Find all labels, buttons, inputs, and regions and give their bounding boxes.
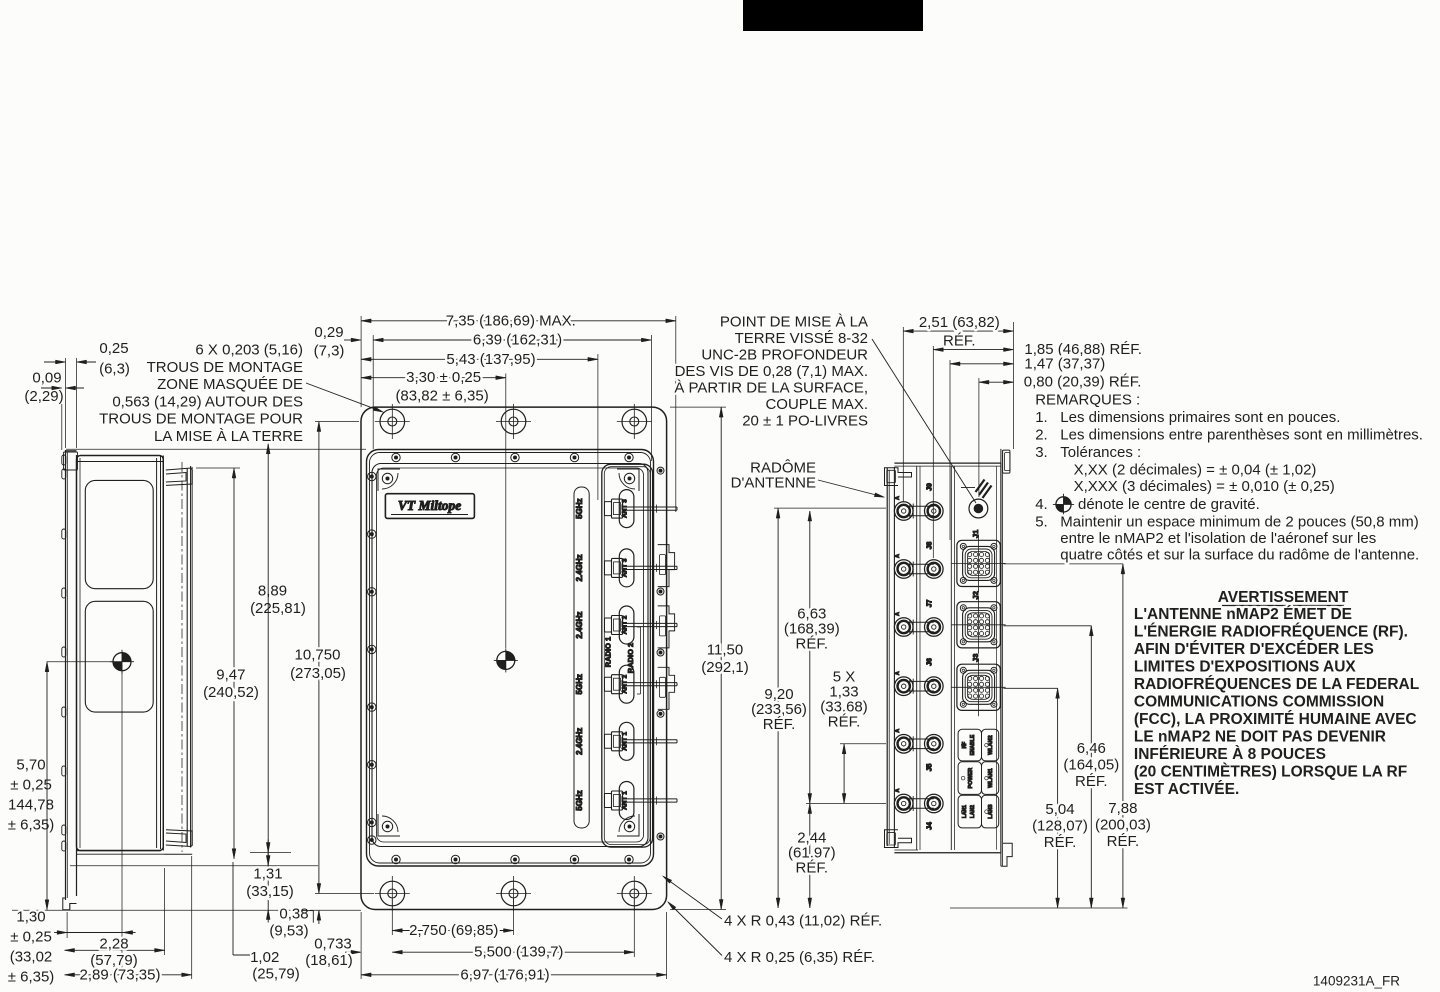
svg-text:J2: J2 <box>971 591 980 599</box>
svg-text:INFÉRIEURE À 8 POUCES: INFÉRIEURE À 8 POUCES <box>1134 746 1326 763</box>
svg-text:ANT 3: ANT 3 <box>622 558 629 577</box>
svg-text:10,750: 10,750 <box>295 647 341 664</box>
svg-text:J1: J1 <box>971 530 980 538</box>
svg-text:ANT 1: ANT 1 <box>622 791 629 810</box>
svg-text:(225,81): (225,81) <box>250 600 306 617</box>
svg-text:2.4GHz: 2.4GHz <box>575 554 584 581</box>
svg-text:0,38: 0,38 <box>279 906 308 923</box>
svg-text:± 0,25: ± 0,25 <box>10 929 52 946</box>
svg-text:X,XX (2 décimales) = ± 0,04 (±: X,XX (2 décimales) = ± 0,04 (± 1,02) <box>1074 461 1317 478</box>
svg-text:ZONE MASQUÉE DE: ZONE MASQUÉE DE <box>157 376 303 393</box>
svg-text:1409231A_FR: 1409231A_FR <box>1313 974 1400 989</box>
svg-text:J3: J3 <box>971 654 980 662</box>
svg-text:2,51 (63,82): 2,51 (63,82) <box>919 314 1000 331</box>
svg-text:A: A <box>895 612 901 616</box>
svg-text:2.4GHz: 2.4GHz <box>575 611 584 638</box>
svg-text:(25,79): (25,79) <box>252 965 300 982</box>
svg-text:(6,3): (6,3) <box>99 360 130 377</box>
svg-text:A: A <box>895 788 901 792</box>
svg-text:1,31: 1,31 <box>253 866 282 883</box>
svg-text:J9: J9 <box>927 483 934 491</box>
svg-text:(83,82 ± 6,35): (83,82 ± 6,35) <box>395 388 488 405</box>
svg-text:20 ± 1 PO-LIVRES: 20 ± 1 PO-LIVRES <box>742 413 868 430</box>
svg-text:AFIN D'ÉVITER D'EXCÉDER LES: AFIN D'ÉVITER D'EXCÉDER LES <box>1134 641 1374 658</box>
svg-text:COUPLE MAX.: COUPLE MAX. <box>765 396 868 413</box>
svg-text:WLAN2: WLAN2 <box>988 735 994 755</box>
svg-text:LAN2: LAN2 <box>970 805 976 818</box>
svg-text:ENABLE: ENABLE <box>970 734 976 755</box>
svg-text:Les dimensions entre parenthès: Les dimensions entre parenthèses sont en… <box>1060 427 1423 444</box>
svg-text:TERRE VISSÉ 8-32: TERRE VISSÉ 8-32 <box>735 330 868 347</box>
svg-text:(33,02: (33,02 <box>10 949 53 966</box>
svg-text:LA MISE À LA TERRE: LA MISE À LA TERRE <box>154 428 303 445</box>
svg-text:RADIOFRÉQUENCES DE LA FEDERAL: RADIOFRÉQUENCES DE LA FEDERAL <box>1134 676 1419 693</box>
svg-text:J7: J7 <box>927 600 934 608</box>
svg-text:5.: 5. <box>1035 513 1048 530</box>
svg-text:2,89 (73,35): 2,89 (73,35) <box>80 966 161 983</box>
svg-text:ANT 2: ANT 2 <box>622 674 629 693</box>
svg-text:(9,53): (9,53) <box>269 922 308 939</box>
svg-text:quatre côtés et sur la surface: quatre côtés et sur la surface du radôme… <box>1060 547 1419 564</box>
svg-text:RÉF.: RÉF. <box>943 333 976 350</box>
svg-text:7,35 (186,69) MAX.: 7,35 (186,69) MAX. <box>446 312 576 329</box>
svg-text:UNC-2B PROFONDEUR: UNC-2B PROFONDEUR <box>701 347 868 364</box>
svg-text:REMARQUES :: REMARQUES : <box>1035 392 1140 409</box>
svg-text:Les dimensions primaires sont: Les dimensions primaires sont en pouces. <box>1060 409 1340 426</box>
svg-text:6,46: 6,46 <box>1077 740 1106 757</box>
svg-text:0,29: 0,29 <box>314 324 343 341</box>
svg-text:ANT 3: ANT 3 <box>622 499 629 518</box>
svg-text:(273,05): (273,05) <box>290 665 346 682</box>
svg-text:2,750 (69,85): 2,750 (69,85) <box>409 922 498 939</box>
svg-text:J8: J8 <box>927 542 934 550</box>
svg-text:RÉF.: RÉF. <box>796 636 829 653</box>
svg-text:DES VIS DE 0,28 (7,1) MAX.: DES VIS DE 0,28 (7,1) MAX. <box>675 363 868 380</box>
svg-text:0,09: 0,09 <box>32 370 61 387</box>
svg-text:RÉF.: RÉF. <box>828 714 861 731</box>
svg-text:RÉF.: RÉF. <box>796 860 829 877</box>
svg-text:COMMUNICATIONS COMMISSION: COMMUNICATIONS COMMISSION <box>1134 693 1384 710</box>
svg-text:5GHz: 5GHz <box>575 674 584 694</box>
svg-text:LAN3: LAN3 <box>988 804 994 818</box>
svg-text:3,30 ± 0,25: 3,30 ± 0,25 <box>406 369 481 386</box>
svg-text:4 X R 0,25 (6,35) RÉF.: 4 X R 0,25 (6,35) RÉF. <box>724 949 875 966</box>
svg-text:1,02: 1,02 <box>250 949 279 966</box>
svg-text:(292,1): (292,1) <box>701 659 749 676</box>
svg-text:A: A <box>895 554 901 558</box>
svg-text:entre le nMAP2 et l'isolation: entre le nMAP2 et l'isolation de l'aéron… <box>1060 530 1376 547</box>
svg-text:2,28: 2,28 <box>99 935 128 952</box>
svg-text:1.: 1. <box>1035 409 1048 426</box>
svg-text:L'ANTENNE nMAP2 ÉMET DE: L'ANTENNE nMAP2 ÉMET DE <box>1134 606 1352 623</box>
svg-text:RADIO 2: RADIO 2 <box>626 643 635 673</box>
svg-text:(18,61): (18,61) <box>305 952 353 969</box>
svg-text:2.: 2. <box>1035 427 1048 444</box>
svg-text:± 0,25: ± 0,25 <box>10 777 52 794</box>
svg-text:6 X 0,203 (5,16): 6 X 0,203 (5,16) <box>195 342 303 359</box>
svg-text:(2,29): (2,29) <box>24 388 63 405</box>
svg-text:3.: 3. <box>1035 444 1048 461</box>
svg-text:J4: J4 <box>927 822 934 830</box>
svg-text:5,70: 5,70 <box>16 757 45 774</box>
svg-text:(240,52): (240,52) <box>203 684 259 701</box>
svg-text:A: A <box>895 496 901 500</box>
svg-text:J5: J5 <box>927 764 934 772</box>
svg-text:0,25: 0,25 <box>99 340 128 357</box>
svg-text:A: A <box>895 729 901 733</box>
svg-text:(FCC), LA PROXIMITÉ HUMAINE AV: (FCC), LA PROXIMITÉ HUMAINE AVEC <box>1134 711 1417 728</box>
svg-text:dénote le centre de gravité.: dénote le centre de gravité. <box>1078 496 1260 513</box>
svg-text:(164,05): (164,05) <box>1063 756 1119 773</box>
svg-text:L'ÉNERGIE RADIOFRÉQUENCE (RF).: L'ÉNERGIE RADIOFRÉQUENCE (RF). <box>1134 623 1408 640</box>
svg-text:5,500 (139,7): 5,500 (139,7) <box>474 944 563 961</box>
svg-text:6,97 (176,91): 6,97 (176,91) <box>460 966 549 983</box>
svg-text:X,XXX (3 décimales) = ± 0,010: X,XXX (3 décimales) = ± 0,010 (± 0,25) <box>1074 478 1335 495</box>
svg-text:J6: J6 <box>927 658 934 666</box>
svg-text:Tolérances :: Tolérances : <box>1060 444 1141 461</box>
svg-text:D'ANTENNE: D'ANTENNE <box>731 474 816 491</box>
svg-text:5,43 (137,95): 5,43 (137,95) <box>446 351 535 368</box>
svg-text:(33,15): (33,15) <box>246 883 294 900</box>
svg-text:(200,03): (200,03) <box>1095 817 1151 834</box>
svg-text:5GHz: 5GHz <box>575 498 584 518</box>
svg-text:À PARTIR DE LA SURFACE,: À PARTIR DE LA SURFACE, <box>674 380 868 397</box>
svg-text:1,30: 1,30 <box>16 909 45 926</box>
svg-text:1,47 (37,37): 1,47 (37,37) <box>1024 355 1105 372</box>
svg-text:0,80 (20,39) RÉF.: 0,80 (20,39) RÉF. <box>1024 374 1142 391</box>
svg-text:ANT 2: ANT 2 <box>622 615 629 634</box>
svg-text:± 6,35): ± 6,35) <box>8 969 55 986</box>
svg-text:(128,07): (128,07) <box>1032 818 1088 835</box>
svg-text:POINT DE MISE À LA: POINT DE MISE À LA <box>720 314 868 331</box>
svg-text:(20 CENTIMÈTRES) LORSQUE LA RF: (20 CENTIMÈTRES) LORSQUE LA RF <box>1134 763 1407 780</box>
svg-text:6,39 (162,31): 6,39 (162,31) <box>473 332 562 349</box>
svg-text:TROUS DE MONTAGE: TROUS DE MONTAGE <box>147 359 303 376</box>
svg-text:A: A <box>895 671 901 675</box>
svg-text:RÉF.: RÉF. <box>763 716 796 733</box>
svg-text:EST ACTIVÉE.: EST ACTIVÉE. <box>1134 781 1239 798</box>
svg-text:VT Miltope: VT Miltope <box>398 498 461 513</box>
svg-text:RÉF.: RÉF. <box>1075 773 1108 790</box>
svg-text:5,04: 5,04 <box>1045 801 1074 818</box>
svg-text:LE nMAP2 NE DOIT PAS DEVENIR: LE nMAP2 NE DOIT PAS DEVENIR <box>1134 728 1386 745</box>
svg-text:TROUS DE MONTAGE POUR: TROUS DE MONTAGE POUR <box>99 411 303 428</box>
svg-text:RÉF.: RÉF. <box>1107 833 1140 850</box>
svg-text:LIMITES D'EXPOSITIONS AUX: LIMITES D'EXPOSITIONS AUX <box>1134 658 1357 675</box>
svg-text:(7,3): (7,3) <box>314 342 345 359</box>
svg-text:8,89: 8,89 <box>258 583 287 600</box>
svg-text:RÉF.: RÉF. <box>1044 834 1077 851</box>
svg-text:ANT 1: ANT 1 <box>622 732 629 751</box>
svg-text:RADIO 1: RADIO 1 <box>604 637 613 667</box>
svg-text:2.4GHz: 2.4GHz <box>575 728 584 755</box>
svg-text:4.: 4. <box>1035 496 1048 513</box>
svg-text:5GHz: 5GHz <box>575 790 584 810</box>
svg-text:POWER: POWER <box>968 768 974 789</box>
svg-text:WLAN1: WLAN1 <box>988 768 994 788</box>
svg-text:11,50: 11,50 <box>707 642 743 659</box>
svg-text:9,47: 9,47 <box>216 667 245 684</box>
svg-text:AVERTISSEMENT: AVERTISSEMENT <box>1218 589 1349 606</box>
svg-text:Maintenir un espace minimum de: Maintenir un espace minimum de 2 pouces … <box>1060 513 1419 530</box>
svg-text:4 X R 0,43 (11,02) RÉF.: 4 X R 0,43 (11,02) RÉF. <box>724 913 882 930</box>
svg-text:0,733: 0,733 <box>314 935 352 952</box>
svg-text:0,563 (14,29) AUTOUR DES: 0,563 (14,29) AUTOUR DES <box>112 393 303 410</box>
svg-text:7,88: 7,88 <box>1108 800 1137 817</box>
